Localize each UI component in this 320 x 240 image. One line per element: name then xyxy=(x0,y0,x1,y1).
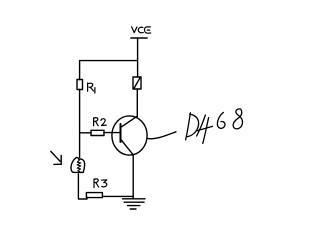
wire top horizontal from left rail to VCC stem xyxy=(80,60,138,62)
wire left rail from LDR to bottom corner xyxy=(78,174,87,199)
VCC terminal bar xyxy=(131,37,147,39)
light arrow xyxy=(51,151,62,164)
wire left rail top to R1 xyxy=(79,61,81,80)
wire base from R2 to transistor xyxy=(104,132,121,134)
wire from transistor to label D468 xyxy=(147,132,176,139)
resistor R1 xyxy=(77,80,83,90)
label R2 xyxy=(94,118,107,126)
photoresistor (LDR) xyxy=(71,157,85,172)
wire R3 to ground xyxy=(102,195,133,197)
resistor R2 xyxy=(91,130,104,135)
power VCC label xyxy=(132,27,151,33)
wire collector resistor to transistor xyxy=(136,89,138,117)
label R3 xyxy=(94,179,107,188)
label R1 xyxy=(88,83,95,93)
resistor R3 xyxy=(86,193,102,198)
transistor Q1 D468 xyxy=(112,116,147,155)
wire R2 branch from left rail xyxy=(80,132,91,134)
wire emitter down to ground xyxy=(132,155,134,198)
ground xyxy=(123,199,146,209)
label D468 xyxy=(186,109,243,144)
collector resistor (with diagonal) xyxy=(133,77,141,89)
wire VCC stem down to collector resistor xyxy=(137,39,139,77)
wire left rail from R1 down to LDR xyxy=(79,90,81,158)
